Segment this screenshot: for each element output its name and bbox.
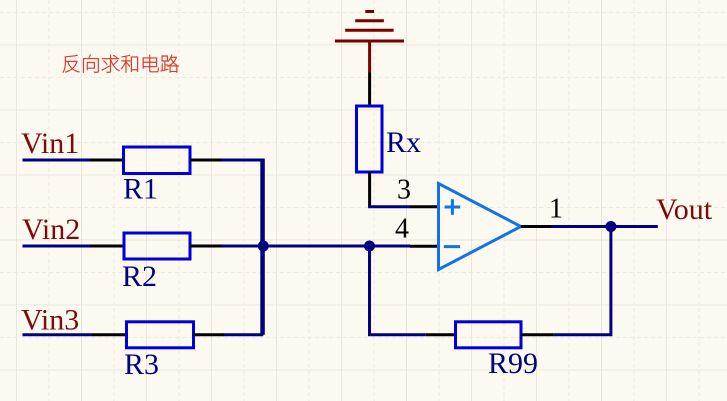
svg-text:R99: R99 <box>488 347 538 380</box>
pin 3 label <box>397 175 411 206</box>
pin 4 label <box>395 214 409 245</box>
net label Vin2 <box>22 213 80 246</box>
net label Vout <box>656 193 713 226</box>
svg-text:R3: R3 <box>124 348 159 381</box>
wire R99 to output node <box>554 227 611 337</box>
svg-text:Vin3: Vin3 <box>21 304 79 337</box>
resistor R1 <box>90 147 222 174</box>
wire output to Vout <box>552 225 658 228</box>
svg-text:3: 3 <box>397 175 411 206</box>
net label Vin1 <box>21 127 79 160</box>
junction node (summing bus / Vin2 row) <box>258 241 269 252</box>
svg-text:R1: R1 <box>123 173 158 206</box>
label R3 <box>124 348 159 381</box>
title text 反向求和电路 <box>63 55 179 73</box>
pin 1 label <box>549 194 563 225</box>
svg-text:Vin2: Vin2 <box>22 213 80 246</box>
resistor R3 <box>92 322 224 348</box>
wire Vin3 stub <box>23 333 93 336</box>
ground (earth symbol) <box>335 12 404 73</box>
wire R1 to vertical bus to R3 <box>222 159 264 335</box>
svg-text:4: 4 <box>395 214 409 245</box>
wire summing node down to R99 <box>368 246 426 335</box>
resistor R2 <box>90 233 222 259</box>
svg-text:Vin1: Vin1 <box>21 127 79 160</box>
resistor R99 <box>426 322 554 348</box>
wire Rx to non-inverting input <box>368 205 410 208</box>
label R2 <box>122 260 157 293</box>
wire Vin1 stub <box>23 159 91 162</box>
svg-text:R2: R2 <box>122 260 157 293</box>
svg-text:Vout: Vout <box>656 193 713 226</box>
resistor Rx <box>357 73 383 207</box>
label Rx <box>386 126 421 159</box>
net label Vin3 <box>21 304 79 337</box>
junction node (output / feedback) <box>605 221 616 232</box>
wire Vin2 stub <box>23 245 91 248</box>
svg-text:1: 1 <box>549 194 563 225</box>
wire R2 to inverting input <box>222 245 411 248</box>
op-amp <box>410 184 552 270</box>
svg-text:Rx: Rx <box>386 126 421 159</box>
junction node (inverting input / feedback) <box>364 241 375 252</box>
label R99 <box>488 347 538 380</box>
label R1 <box>123 173 158 206</box>
